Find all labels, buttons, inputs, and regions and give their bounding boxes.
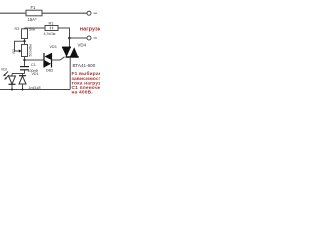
svg-text:4,7кОм: 4,7кОм bbox=[44, 32, 56, 36]
node junction triac top bbox=[68, 37, 71, 40]
LED VD2 bbox=[1, 68, 16, 90]
svg-text:R1: R1 bbox=[49, 20, 55, 25]
wire to load terminal bbox=[70, 37, 87, 39]
svg-text:на 400В.: на 400В. bbox=[72, 90, 93, 96]
wire rail C1 to LED/diode bbox=[12, 73, 25, 75]
svg-text:50k: 50k bbox=[29, 27, 35, 32]
node junction R2/C1/diac bbox=[23, 59, 25, 61]
svg-text:VD4: VD4 bbox=[78, 43, 87, 48]
wire branch from R3 top to R1 bbox=[25, 27, 46, 29]
svg-text:ВТА41-600: ВТА41-600 bbox=[73, 63, 96, 68]
triac VD4 BTA41-600 bbox=[62, 38, 96, 90]
svg-text:15А*: 15А* bbox=[28, 17, 37, 22]
terminal load bbox=[87, 36, 97, 40]
node dot VD1-bottom bbox=[22, 89, 24, 91]
node dot LED-bottom bbox=[11, 89, 13, 91]
wire gate from diac to triac bbox=[52, 57, 65, 60]
diode VD1 1n4148 bbox=[19, 72, 41, 90]
svg-text:DB3: DB3 bbox=[46, 69, 53, 73]
wire R3 bottom to R2 top bbox=[24, 39, 26, 45]
potentiometer R2 500kOhm bbox=[12, 41, 33, 56]
svg-text:нагрузка: нагрузка bbox=[80, 26, 100, 32]
svg-text:500кОм: 500кОм bbox=[29, 44, 33, 57]
node junction R3/R2/wiper bbox=[23, 40, 25, 42]
svg-text:R2: R2 bbox=[12, 49, 16, 53]
diac VD3 DB3 bbox=[44, 45, 57, 73]
capacitor C1 100nF bbox=[20, 63, 38, 74]
wire R2 bottom to C1 bbox=[24, 57, 26, 67]
note red annotation block bbox=[72, 70, 115, 95]
resistor R3 50k bbox=[15, 27, 36, 39]
svg-text:C1: C1 bbox=[31, 63, 36, 67]
resistor R1 4,7kOhm bbox=[44, 20, 59, 36]
svg-text:R3: R3 bbox=[15, 27, 20, 31]
svg-text:VD3: VD3 bbox=[50, 45, 57, 49]
wire top mains line bbox=[0, 12, 87, 14]
wire bottom mains line bbox=[0, 89, 70, 91]
wire R1 to triac top junction bbox=[58, 28, 70, 38]
terminal top right bbox=[87, 11, 97, 15]
wire junction to diac bbox=[25, 59, 45, 61]
svg-text:F1: F1 bbox=[31, 5, 37, 10]
svg-text:VD1: VD1 bbox=[32, 72, 39, 76]
fuse F1 bbox=[26, 5, 42, 22]
svg-text:VD2: VD2 bbox=[1, 68, 7, 72]
